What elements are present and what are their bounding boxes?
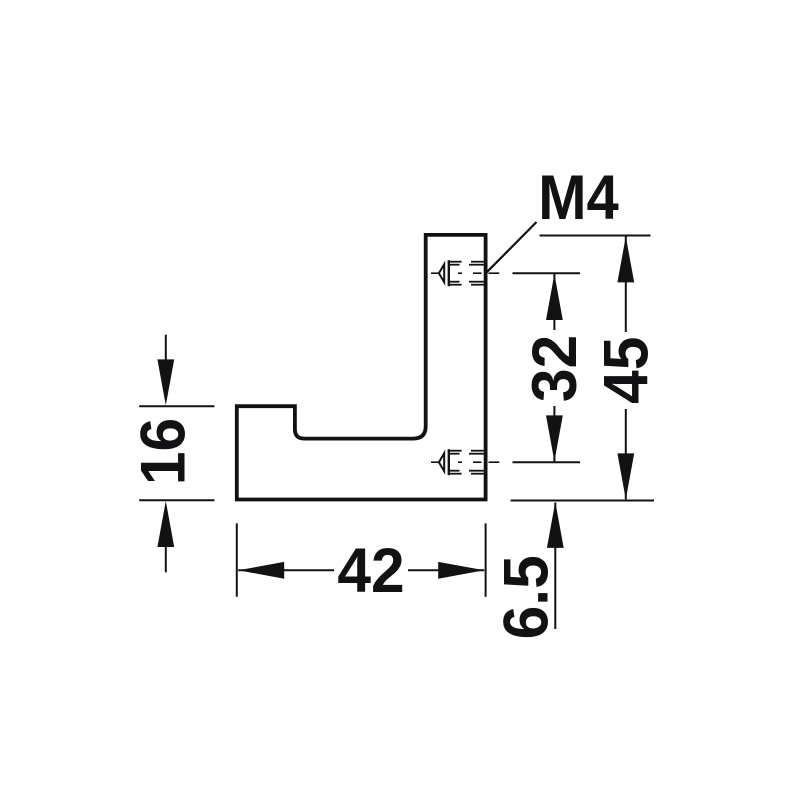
leader line from M4 to upper hole [486, 222, 537, 273]
hole bottom bar [448, 260, 450, 286]
thread lines right group [471, 261, 484, 263]
centerline dash outside wall [489, 461, 500, 463]
dimension text 32 (rotated) [520, 335, 590, 402]
dimension 45 extension lines [511, 236, 654, 501]
thread lines left group [448, 261, 462, 263]
dimension 6.5 line + arrow (pointing up) [547, 502, 564, 629]
svg-text:45: 45 [592, 337, 662, 404]
centerline dash right [473, 272, 482, 274]
svg-text:M4: M4 [538, 162, 619, 233]
dimension 16 extension lines [139, 406, 214, 500]
centerline dash left [431, 272, 439, 274]
threaded hole symbol M4 upper [431, 260, 499, 286]
dimension 32 line + arrows [546, 274, 563, 461]
svg-text:42: 42 [337, 536, 404, 606]
dimension 16 arrow lower (pointing up) [157, 501, 174, 572]
centerline dash right [473, 461, 482, 463]
dimension 42 line + arrows [238, 562, 484, 579]
dimension text 6.5 (rotated) [491, 555, 561, 639]
dimension 32 extension lines (hole centerlines) [513, 273, 581, 462]
drill point cone [439, 453, 444, 471]
dimension text 45 (rotated) [592, 337, 662, 404]
threaded hole symbol M4 lower [431, 449, 499, 475]
hole bottom bar [448, 449, 450, 475]
centerline dot [458, 461, 462, 463]
dimension 16 arrow upper (pointing down) [157, 335, 174, 406]
part outline: L-shaped hook bracket profile [237, 235, 486, 500]
centerline dash left [431, 461, 439, 463]
svg-text:16: 16 [128, 418, 198, 485]
dimension text 42 [337, 536, 404, 606]
dimension 42 extension lines [237, 523, 486, 596]
svg-text:6.5: 6.5 [491, 555, 561, 639]
centerline dot [458, 272, 462, 274]
centerline dash outside wall [489, 272, 500, 274]
dimension 45 line + arrows [617, 236, 634, 499]
thread lines right group [471, 450, 484, 452]
label M4 [538, 162, 619, 233]
svg-text:32: 32 [520, 335, 590, 402]
drill point cone [439, 264, 444, 282]
dimension text 16 (rotated) [128, 418, 198, 485]
thread lines left group [448, 450, 462, 452]
